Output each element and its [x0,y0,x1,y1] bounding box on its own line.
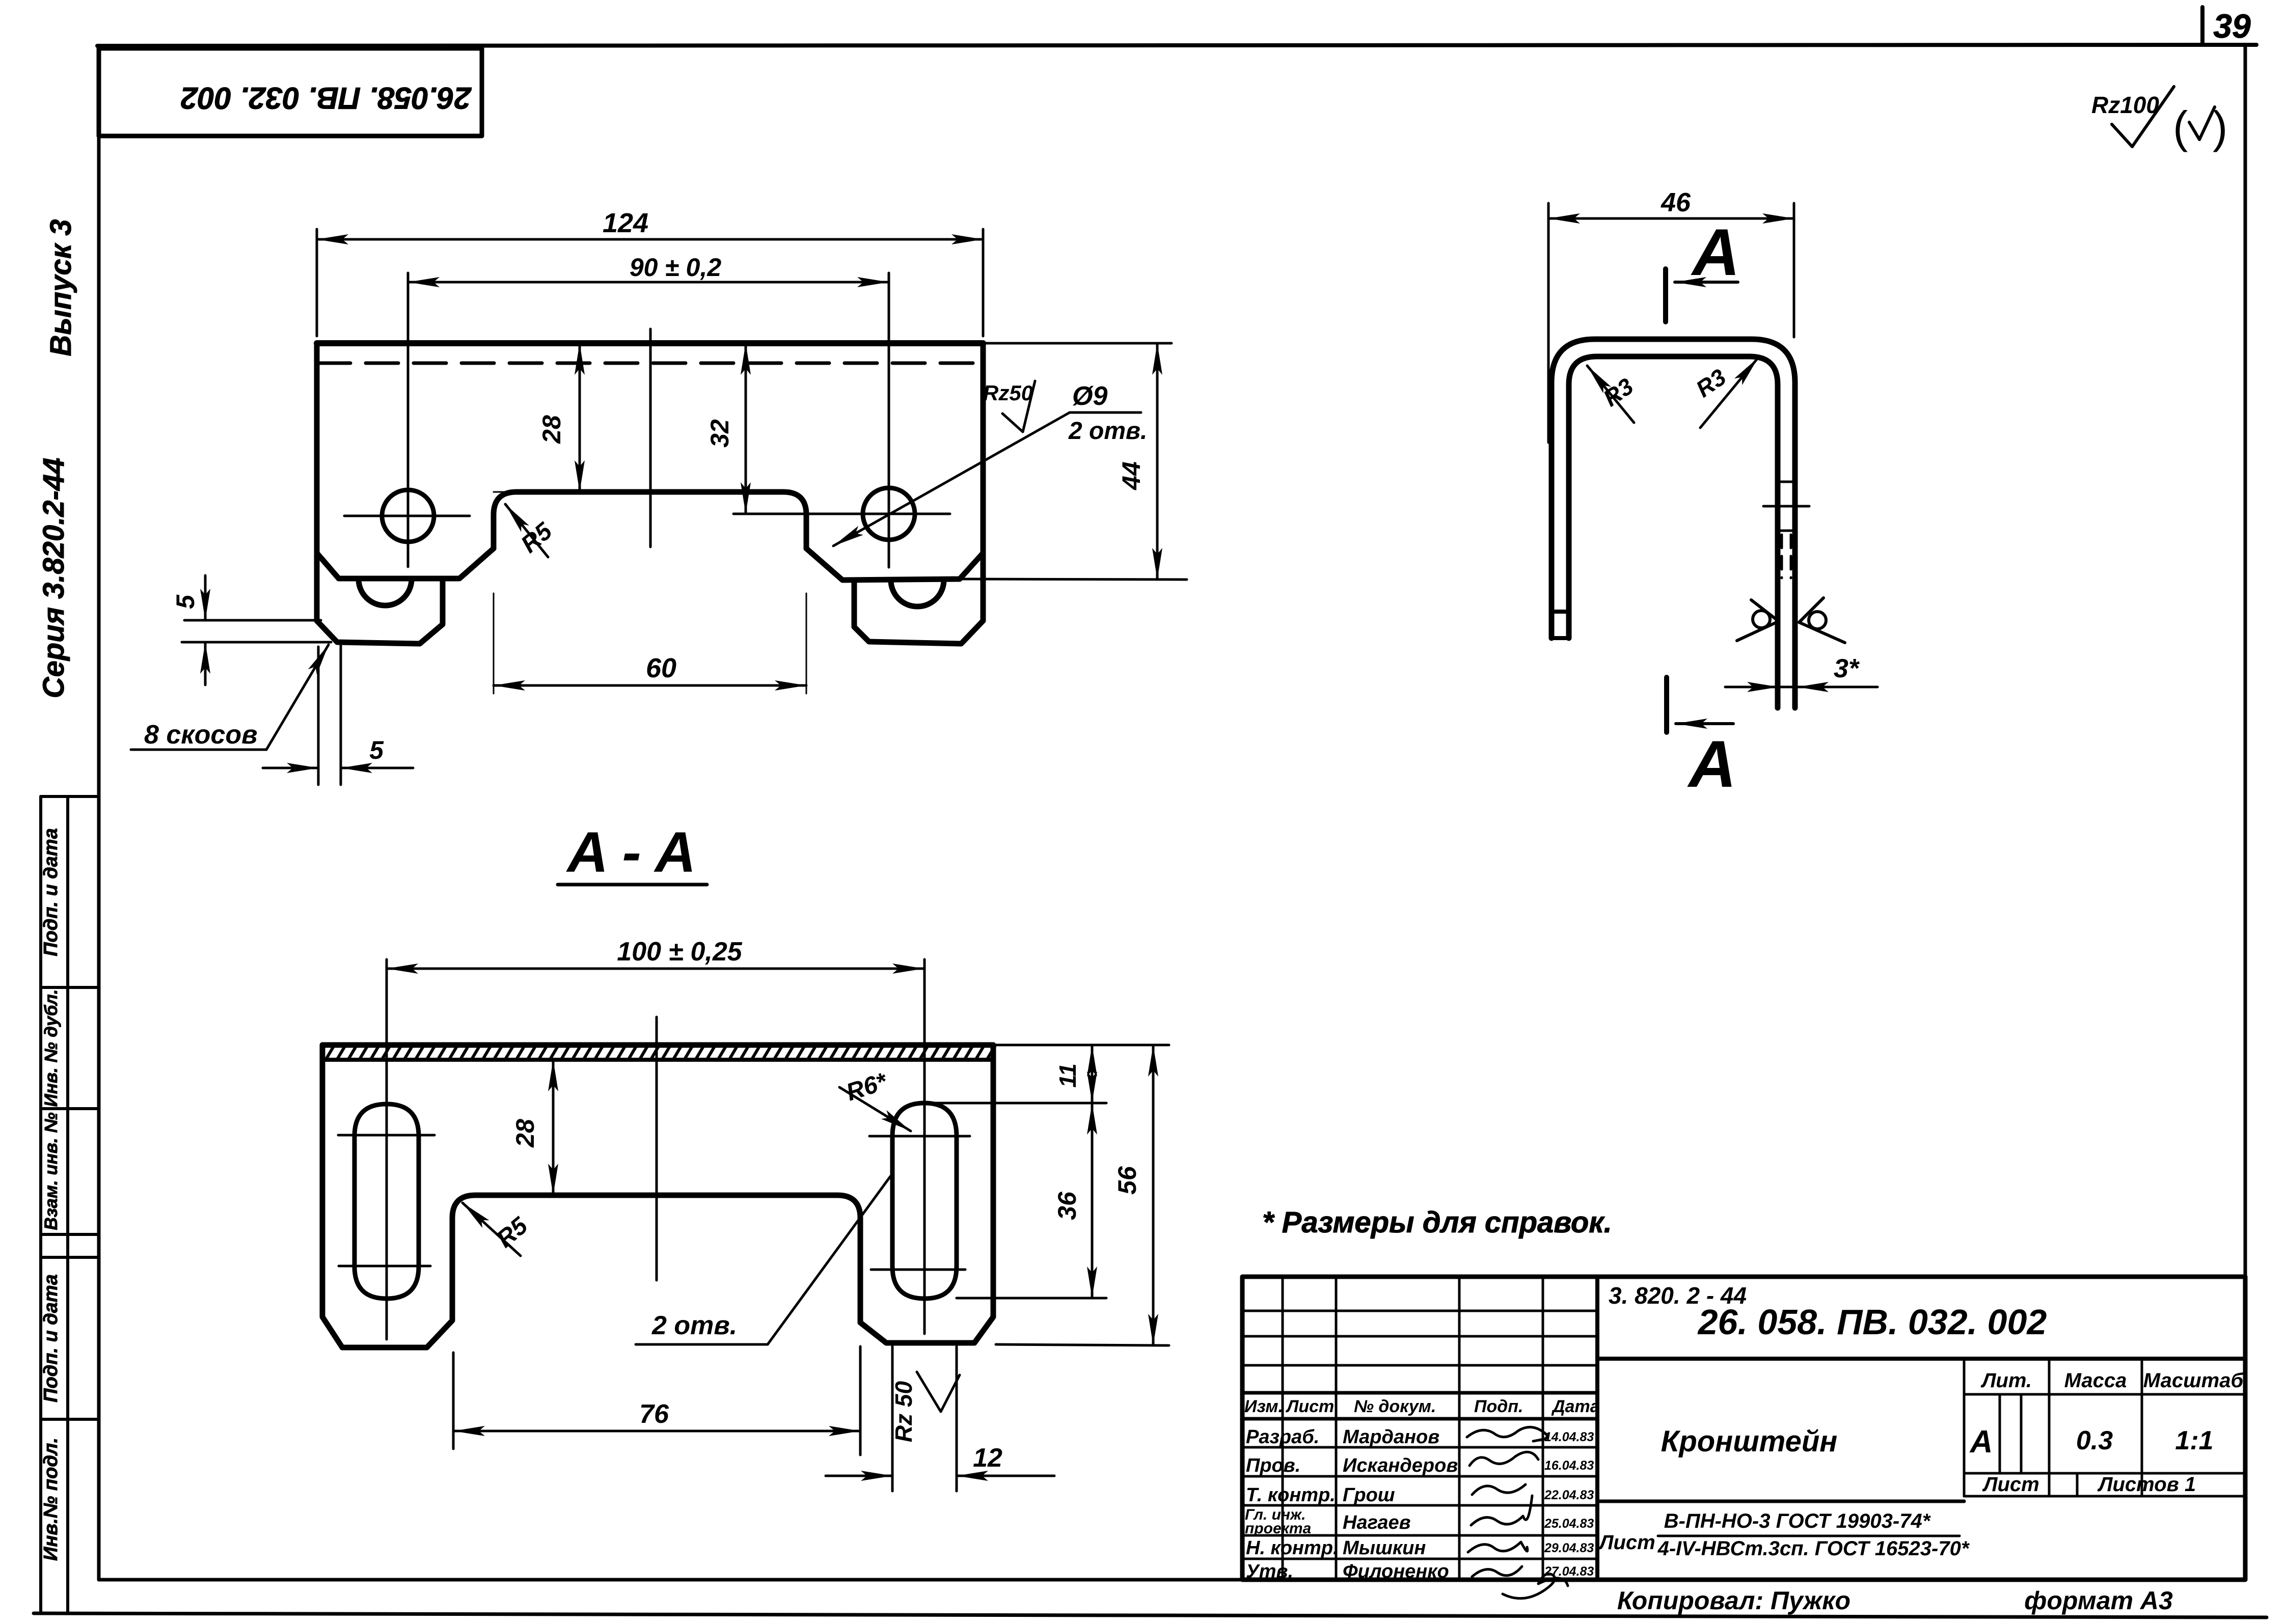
dimension 90±0.2 [408,253,889,282]
label 8 скосов with leader [131,645,329,750]
row Н.контр. Мышкин 29.04.83 [1246,1537,1594,1559]
row Гл.инж.проекта Нагаев 25.04.83 [1245,1506,1594,1537]
doc number stamped 26.058.ПВ.032.002 [1697,1302,2047,1342]
svg-text:26. 058. ПВ. 032. 002: 26. 058. ПВ. 032. 002 [1697,1302,2047,1342]
left margin text Выпуск 3 [44,219,77,356]
svg-text:Rz50: Rz50 [983,381,1033,405]
lit value А [1969,1424,1993,1460]
massa value 0.3 [2076,1426,2113,1455]
svg-text:1:1: 1:1 [2175,1426,2213,1455]
svg-text:Лист: Лист [1285,1397,1334,1416]
dimension 5 (chamfer width, bottom) [263,646,413,785]
title block name row lines [1242,1447,1597,1559]
side view inner contour [1569,356,1778,708]
dimension 28 (top view) [494,343,580,492]
svg-text:39: 39 [2213,7,2251,45]
top view outline: left edge [314,343,320,621]
svg-text:Марданов: Марданов [1343,1426,1439,1448]
svg-text:Пров.: Пров. [1246,1455,1300,1476]
svg-text:Серия 3.820.2-44: Серия 3.820.2-44 [37,458,70,699]
A-A foot bottom extension right [996,1344,1169,1345]
svg-text:Подп. и дата: Подп. и дата [40,1274,62,1402]
svg-text:Утв.: Утв. [1246,1561,1293,1582]
svg-text:проекта: проекта [1245,1520,1311,1537]
svg-text:Разраб.: Разраб. [1246,1426,1319,1448]
svg-text:Инв. № дубл.: Инв. № дубл. [41,989,61,1107]
A-A central centerline [656,1017,658,1280]
dimension 76 [453,1346,860,1455]
svg-text:Искандеров: Искандеров [1343,1455,1458,1476]
signature squiggles [1467,1427,1568,1598]
top view outline: top edge [317,340,983,346]
no-machining symbol left of leg [1737,600,1779,641]
top view central centerline [649,329,652,547]
no-machining symbol right of leg [1799,598,1845,643]
side view left leg tip [1552,612,1569,638]
title block upper small rows [1242,1311,1597,1365]
svg-text:14.04.83: 14.04.83 [1544,1430,1594,1444]
page number tick [2200,7,2205,44]
dimension 11 [1054,1045,1092,1103]
row Т.контр. Грош 22.04.83 [1246,1484,1594,1506]
svg-text:Нагаев: Нагаев [1343,1512,1411,1533]
svg-text:Мышкин: Мышкин [1343,1537,1426,1559]
line under name area [1597,1500,1964,1503]
svg-text:Копировал: Пужко: Копировал: Пужко [1617,1586,1850,1615]
top view bend edge right [806,548,983,580]
top view top edge extension right [983,342,1172,345]
page frame right border [2244,45,2247,1580]
dimension 56 [1113,1045,1153,1345]
stamp text 26.058.ПВ.032.002 (rotated 180) [181,81,472,115]
section letter A lower [1687,727,1736,801]
section letter A upper [1691,215,1740,289]
lit/massa/masshtab sub-table [1964,1359,2245,1496]
A-A outline [322,1045,993,1347]
top view outline: right edge [981,343,986,621]
svg-text:Выпуск 3: Выпуск 3 [44,219,77,356]
svg-text:(: ( [2173,102,2188,152]
A-A top edge extension right [993,1044,1169,1047]
dimension 28 (A-A) [511,1060,553,1195]
form column label Подп. и дата (upper) [40,828,62,956]
top-left stamp box [99,48,482,136]
footer Формат А3 [2024,1586,2173,1615]
header texts Изм Лист № докум Подп Дата [1244,1397,1600,1416]
doc number handwritten 3.820.2-44 [1609,1282,1747,1309]
svg-text:Взам. инв. №: Взам. инв. № [41,1112,61,1230]
svg-text:Лит.: Лит. [1980,1369,2032,1392]
svg-text:Листов 1: Листов 1 [2097,1473,2196,1496]
material spec line 2 [1657,1537,1970,1560]
svg-text:Грош: Грош [1343,1484,1395,1506]
svg-text:60: 60 [646,653,676,683]
svg-text:2 отв.: 2 отв. [1068,418,1147,445]
form column label Подп. и дата (lower) [40,1274,62,1402]
svg-text:R6*: R6* [843,1068,891,1107]
dimension 36 [1053,1103,1092,1298]
svg-text:Филоненко: Филоненко [1343,1561,1449,1582]
svg-text:R3: R3 [1598,373,1638,412]
top view right hole lower-arc projection [891,580,944,607]
A-A hatched section band [326,1045,995,1059]
form column label Инв. № подл. [40,1438,62,1561]
top view right hole Ø9 [863,488,915,540]
svg-text:16.04.83: 16.04.83 [1544,1458,1594,1473]
material spec line 1 [1664,1510,1931,1532]
svg-text:Масса: Масса [2064,1369,2127,1392]
top view right foot [854,581,983,644]
svg-text:8 скосов: 8 скосов [144,720,258,750]
row Разраб. Марданов 14.04.83 [1246,1426,1594,1448]
title block main divider [1595,1277,1599,1580]
svg-text:2 отв.: 2 отв. [651,1311,737,1340]
svg-text:Подп.: Подп. [1474,1397,1523,1416]
svg-text:5: 5 [171,594,200,609]
page outer bottom rule [34,1613,2267,1617]
svg-text:44: 44 [1117,461,1146,490]
svg-text:В-ПН-НО-3 ГОСТ 19903-74*: В-ПН-НО-3 ГОСТ 19903-74* [1664,1510,1931,1532]
roughness Rz 50 below right foot [890,1372,960,1442]
svg-text:Масштаб: Масштаб [2143,1369,2244,1392]
form column label Инв. № дубл. [41,989,61,1107]
svg-text:29.04.83: 29.04.83 [1544,1541,1594,1555]
svg-text:4-IV-НВСт.3сп. ГОСТ 16523-70*: 4-IV-НВСт.3сп. ГОСТ 16523-70* [1657,1537,1970,1560]
A-A right slot centerlines [869,959,970,1334]
form column label Взам. инв. № [41,1112,61,1230]
material fraction bar [1658,1535,1960,1537]
svg-text:A: A [1687,727,1736,801]
svg-text:Подп. и дата: Подп. и дата [40,828,62,956]
top view central notch [494,492,806,548]
svg-text:76: 76 [639,1399,669,1429]
svg-text:5: 5 [369,736,384,764]
radius label R6* with leader [839,1068,911,1131]
svg-text:* Размеры для справок.: * Размеры для справок. [1262,1206,1612,1239]
dimension 32 (top view) [705,343,746,514]
svg-text:90 ± 0,2: 90 ± 0,2 [630,253,722,282]
general roughness (v) top right [2173,102,2227,152]
svg-text:Изм.: Изм. [1244,1397,1283,1416]
line under doc number [1597,1357,2245,1361]
row Утв. Филоненко 27.04.83 [1246,1561,1594,1582]
svg-text:25.04.83: 25.04.83 [1544,1517,1594,1531]
svg-text:22.04.83: 22.04.83 [1544,1488,1594,1502]
svg-text:46: 46 [1661,188,1691,217]
svg-text:A: A [1691,215,1740,289]
svg-text:Т. контр.: Т. контр. [1246,1484,1336,1506]
svg-text:A - A: A - A [566,820,696,884]
top view bottom edge extension right [960,579,1187,580]
svg-text:28: 28 [537,415,566,444]
dimension 44 (top view right) [1117,343,1157,580]
svg-text:А: А [1969,1424,1993,1460]
page frame top rule [97,45,2256,46]
roughness Rz50 on hole leader (top view) [983,381,1035,432]
top view left hole Ø9 [382,490,434,542]
svg-text:Лист: Лист [1598,1531,1655,1554]
reference note Размеры для справок [1262,1206,1612,1239]
svg-text:12: 12 [973,1443,1002,1473]
lit header texts [1980,1369,2244,1392]
A-A slot bottom extension right [957,1297,1106,1300]
footer Копировал Пужко [1617,1586,1850,1615]
svg-text:№ докум.: № докум. [1354,1397,1436,1416]
dimension 100±0.25 [387,937,924,969]
left margin text Серия 3.820.2-44 [37,458,70,699]
svg-text:3*: 3* [1834,654,1860,683]
svg-text:Rz100: Rz100 [2091,92,2159,118]
svg-text:36: 36 [1053,1191,1081,1220]
svg-text:32: 32 [705,419,734,448]
masshtab value 1:1 [2175,1426,2213,1455]
svg-text:11: 11 [1054,1063,1081,1088]
side view hidden hole edges (dashed) [1777,482,1796,578]
svg-text:Ø9: Ø9 [1072,381,1107,411]
roughness note Rz100 top right [2091,87,2174,147]
svg-text:28: 28 [511,1119,539,1148]
title block outer border [1242,1277,2245,1580]
A-A slot top extension right [924,1102,1106,1105]
svg-text:формат А3: формат А3 [2024,1586,2173,1615]
svg-text:0.3: 0.3 [2076,1426,2113,1455]
svg-text:Rz 50: Rz 50 [890,1381,917,1443]
left form column boxes [41,796,99,1612]
dimension 60 (notch width) [494,593,806,694]
section arrow A upper [1666,269,1738,322]
label Ø9 2 отв. with leader [833,381,1147,546]
A-A left slot centerlines [338,959,434,1339]
svg-text:124: 124 [603,208,648,238]
svg-text:Кронштейн: Кронштейн [1661,1425,1838,1458]
svg-text:Н. контр.: Н. контр. [1246,1537,1339,1559]
row Пров. Искандеров 16.04.83 [1246,1455,1594,1476]
title block vertical lines left part [1283,1277,1543,1580]
list row texts [1982,1473,2196,1496]
side view hole centerline [1763,505,1809,508]
A-A band bottom edge [322,1058,993,1062]
radius label R3 left [1587,366,1638,423]
section title A-A [558,820,707,885]
dimension 5 (chamfer height, left) [171,575,331,685]
part name Кронштейн [1661,1425,1838,1458]
A-A left slot [355,1104,419,1299]
top view left hole lower-arc projection [359,579,412,605]
material area Лист label [1598,1531,1655,1554]
svg-text:56: 56 [1113,1166,1141,1195]
dimension 12 (slot width) [826,1346,1054,1491]
svg-text:Лист: Лист [1982,1473,2039,1496]
dimension 124 [317,208,983,336]
radius label R5 (top view) with leader [505,504,558,558]
top view left hole centerlines [344,273,470,567]
top view bend line (dashed) [318,362,983,365]
svg-text:27.04.83: 27.04.83 [1544,1564,1594,1579]
page number 39 [2213,7,2251,45]
svg-text:100 ± 0,25: 100 ± 0,25 [617,937,742,967]
side view outer contour [1552,339,1795,708]
svg-text:Дата: Дата [1551,1397,1600,1416]
svg-text:26.058. ПВ. 032. 002: 26.058. ПВ. 032. 002 [181,81,472,115]
page frame bottom border [99,1578,2245,1582]
section arrow A lower [1667,677,1733,732]
top view left foot [317,580,443,644]
dimension 46 [1548,188,1794,443]
A-A right slot [892,1103,957,1299]
top view bend edge left (chamfer + line C) [317,548,494,579]
dimension 3* (leg thickness) [1725,654,1877,687]
top view right hole centerlines [733,273,950,567]
label 2 отв. (A-A) with leader [636,1176,890,1344]
svg-text:Инв.№ подл.: Инв.№ подл. [40,1438,62,1561]
radius label R3 right [1691,357,1758,428]
title block header row lines [1242,1393,1597,1419]
radius label R5 (A-A) with leader [462,1203,533,1256]
page frame left border [97,46,101,1580]
